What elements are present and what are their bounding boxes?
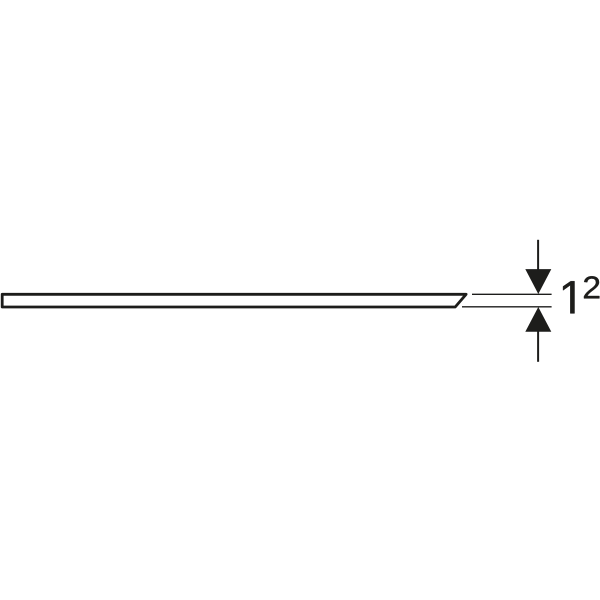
plate (thin beveled panel, edge view) [2, 294, 466, 307]
dimension text 1 [563, 281, 574, 313]
dimension arrow bottom leader [537, 332, 539, 362]
dimension arrowhead bottom [525, 307, 551, 332]
dimension arrow top leader [537, 240, 539, 271]
extension line bottom [462, 306, 552, 308]
extension line top [472, 293, 552, 295]
dimension text superscript 2 [584, 276, 599, 298]
dimension arrowhead top [525, 269, 551, 294]
